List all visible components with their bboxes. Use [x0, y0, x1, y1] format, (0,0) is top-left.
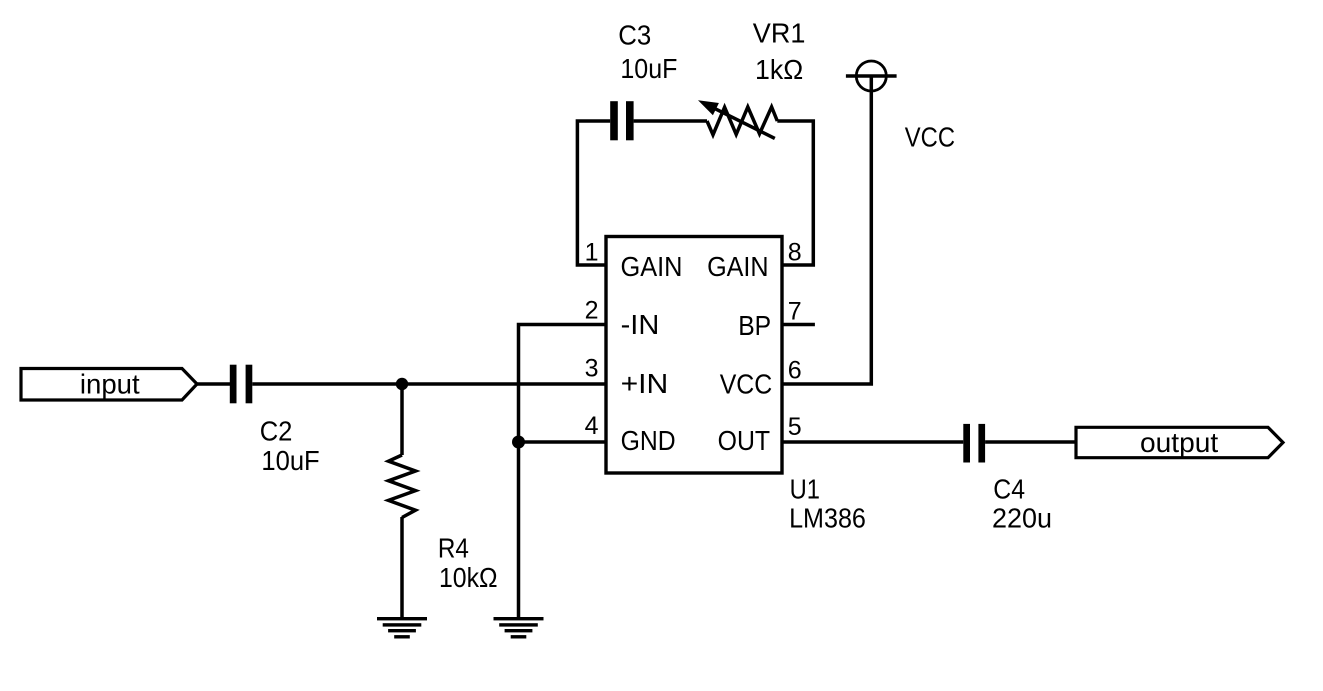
svg-text:-IN: -IN — [621, 309, 660, 340]
wire R4 to ground — [400, 517, 404, 618]
power VCC symbol — [846, 61, 897, 91]
resistor R4 — [389, 455, 416, 518]
wire pin 4 to node B — [519, 440, 607, 444]
svg-text:10uF: 10uF — [620, 53, 677, 84]
svg-text:5: 5 — [788, 413, 802, 441]
svg-text:output: output — [1140, 427, 1219, 458]
wire VR1 to pin 8 — [777, 121, 813, 265]
svg-text:input: input — [80, 368, 140, 399]
svg-text:VCC: VCC — [905, 122, 955, 153]
svg-text:U1: U1 — [790, 474, 820, 505]
net flag input — [21, 369, 197, 401]
svg-text:C3: C3 — [618, 20, 651, 51]
capacitor C4 — [963, 424, 985, 463]
svg-text:6: 6 — [788, 356, 802, 384]
svg-text:2: 2 — [585, 297, 599, 325]
wire VCC to pin 6 — [782, 76, 871, 384]
wire pin 2 to node B — [519, 325, 607, 443]
wire pin 7 stub — [782, 323, 815, 327]
svg-text:10kΩ: 10kΩ — [439, 562, 498, 593]
node B junction — [512, 436, 525, 449]
potentiometer VR1 — [698, 100, 777, 138]
svg-text:VCC: VCC — [720, 369, 773, 400]
svg-text:GND: GND — [621, 425, 676, 456]
svg-text:1: 1 — [585, 239, 599, 267]
node A junction — [396, 378, 408, 390]
ground at R4 — [377, 617, 427, 639]
svg-text:GAIN: GAIN — [621, 251, 683, 282]
net flag output — [1076, 427, 1283, 457]
svg-text:7: 7 — [788, 297, 802, 325]
svg-text:BP: BP — [738, 310, 771, 341]
svg-text:R4: R4 — [438, 533, 469, 564]
wire C2 to node A — [252, 382, 402, 386]
wire node A to pin 3 — [402, 382, 606, 386]
wire C4 to output flag — [985, 440, 1076, 444]
svg-text:10uF: 10uF — [261, 445, 319, 476]
IC U1 LM386 body — [606, 237, 782, 474]
svg-text:220u: 220u — [992, 502, 1052, 533]
svg-text:C4: C4 — [993, 474, 1025, 505]
svg-text:3: 3 — [585, 354, 599, 382]
svg-text:GAIN: GAIN — [707, 251, 769, 282]
svg-text:4: 4 — [585, 412, 599, 440]
wire C3 to VR1 — [634, 119, 707, 123]
svg-text:VR1: VR1 — [753, 18, 806, 49]
ground at node B — [494, 617, 544, 639]
svg-text:1kΩ: 1kΩ — [755, 54, 803, 85]
wire pin 5 to C4 — [782, 440, 963, 444]
svg-text:+IN: +IN — [621, 368, 669, 399]
svg-text:OUT: OUT — [718, 425, 771, 456]
svg-text:C2: C2 — [260, 416, 293, 447]
wire node B to ground — [517, 442, 521, 618]
capacitor C2 — [230, 365, 253, 404]
svg-text:LM386: LM386 — [789, 502, 866, 533]
svg-text:8: 8 — [788, 239, 802, 267]
wire node A to R4 — [400, 384, 404, 455]
wire input to C2 — [197, 382, 230, 386]
wire pin 1 to C3 — [577, 121, 610, 265]
capacitor C3 — [610, 101, 633, 140]
